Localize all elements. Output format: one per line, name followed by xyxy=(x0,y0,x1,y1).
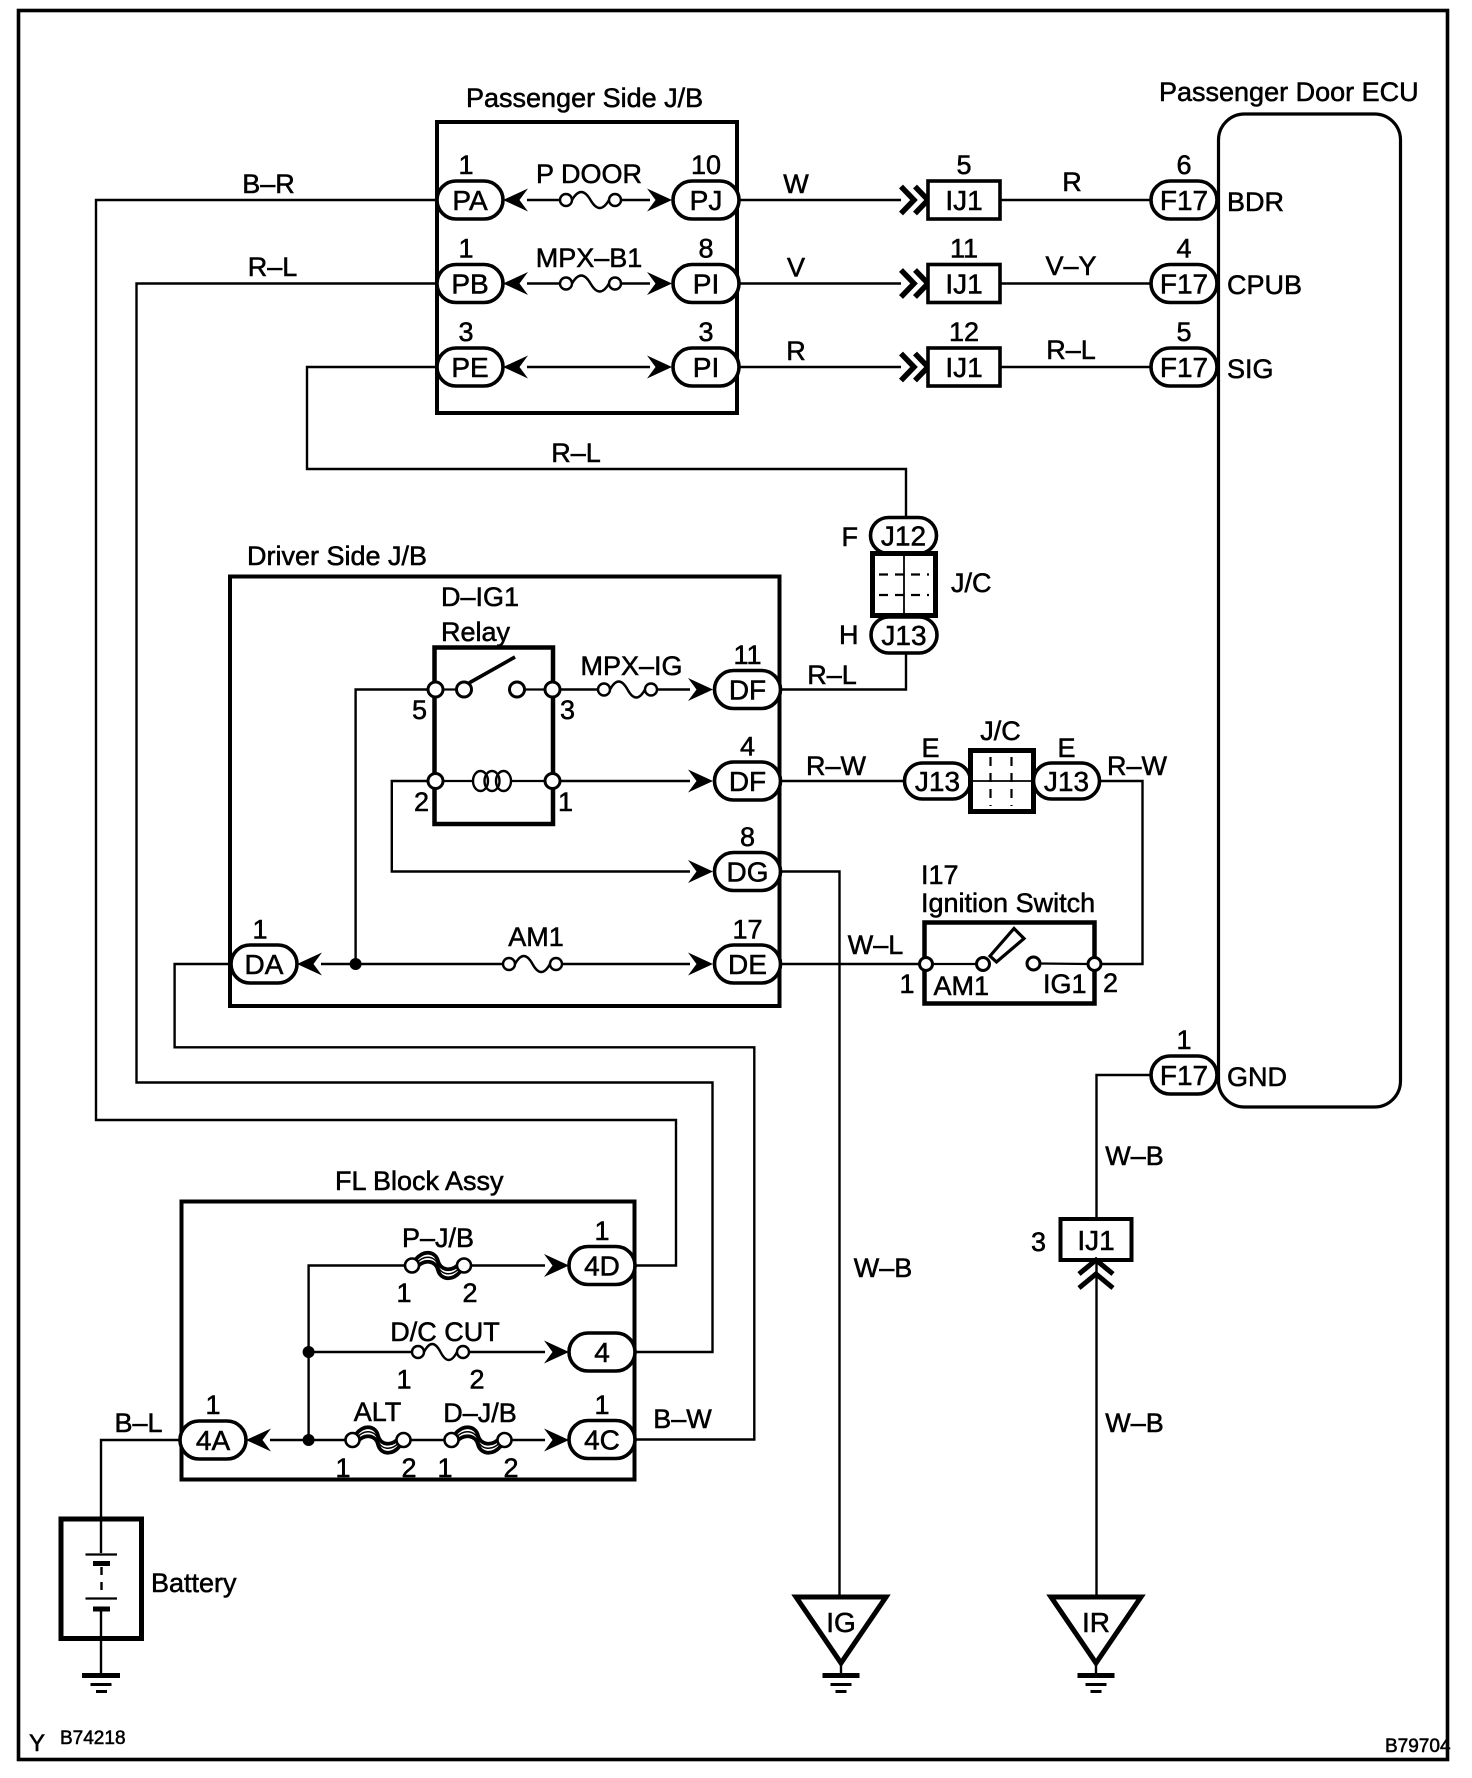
splice chevrons row 2 xyxy=(901,270,928,297)
FL Block Assy box xyxy=(182,1202,635,1480)
svg-text:DE: DE xyxy=(728,949,767,980)
svg-text:AM1: AM1 xyxy=(934,971,990,1001)
arrow into 4D xyxy=(544,1254,569,1277)
wire fuse MPX-B1 to arrow xyxy=(621,282,650,284)
svg-text:Ignition Switch: Ignition Switch xyxy=(921,888,1095,918)
svg-text:J13: J13 xyxy=(915,766,960,797)
svg-text:4C: 4C xyxy=(584,1425,620,1456)
svg-text:J13: J13 xyxy=(1044,766,1089,797)
svg-text:ALT: ALT xyxy=(354,1397,402,1427)
connector PJ xyxy=(673,181,739,219)
svg-text:1: 1 xyxy=(458,234,473,264)
fuse P DOOR xyxy=(560,192,621,208)
connector DF pin 4 xyxy=(715,762,781,800)
connector DF pin 11 xyxy=(715,671,781,709)
svg-text:W–L: W–L xyxy=(848,930,904,960)
arrow into 4A xyxy=(246,1429,271,1452)
fuse MPX-IG xyxy=(598,682,657,698)
svg-text:5: 5 xyxy=(412,695,427,725)
connector PI row2 xyxy=(673,265,739,303)
ignition switch I17 box xyxy=(925,923,1095,1004)
svg-text:1: 1 xyxy=(205,1390,220,1420)
splice chevrons row 1 xyxy=(901,187,928,214)
wire D-J/B to 4C xyxy=(512,1439,545,1441)
connector 4C pin 1 xyxy=(569,1421,635,1459)
svg-text:R–L: R–L xyxy=(1046,335,1096,365)
svg-text:H: H xyxy=(839,620,859,650)
wire 4A to ALT fuse xyxy=(270,1439,346,1441)
arrow into 4C xyxy=(544,1429,569,1452)
svg-text:Passenger Door ECU: Passenger Door ECU xyxy=(1159,77,1419,107)
svg-text:IJ1: IJ1 xyxy=(945,269,982,300)
ground splice IJ1 pin 3 xyxy=(1061,1219,1132,1260)
svg-text:2: 2 xyxy=(469,1365,484,1395)
svg-text:DA: DA xyxy=(245,949,284,980)
connector DE pin 17 xyxy=(715,945,781,983)
connector 4D pin 1 xyxy=(569,1247,635,1285)
wire R-W DF4 to J13 E left xyxy=(781,780,905,782)
wire DA to AM1 fuse to DE xyxy=(321,963,503,965)
arrow into 4 xyxy=(544,1341,569,1364)
svg-text:R–W: R–W xyxy=(1107,751,1168,781)
svg-text:1: 1 xyxy=(1176,1025,1191,1055)
wire B-L from 4A to battery xyxy=(101,1440,181,1519)
svg-text:DF: DF xyxy=(729,675,766,706)
ground symbol under IR xyxy=(1078,1663,1115,1692)
svg-text:11: 11 xyxy=(950,234,978,264)
wire W from PJ to IJ1 xyxy=(739,199,901,201)
svg-text:J13: J13 xyxy=(881,620,926,651)
svg-text:F17: F17 xyxy=(1160,269,1208,300)
ground point IR xyxy=(1051,1597,1141,1663)
svg-text:I17: I17 xyxy=(921,860,959,890)
connector F17 pin 1 GND xyxy=(1151,1056,1217,1094)
svg-text:B79704: B79704 xyxy=(1385,1736,1451,1757)
arrow into DE pin17 xyxy=(688,953,713,976)
svg-text:AM1: AM1 xyxy=(508,922,564,952)
connector J13 E right xyxy=(1034,763,1100,799)
wire ALT to D-J/B xyxy=(410,1439,446,1441)
svg-text:IG1: IG1 xyxy=(1043,969,1087,999)
wire V from PI to IJ1 xyxy=(739,282,901,284)
svg-text:3: 3 xyxy=(458,317,473,347)
svg-text:11: 11 xyxy=(733,640,761,670)
svg-text:J/C: J/C xyxy=(951,568,992,598)
svg-text:1: 1 xyxy=(899,969,914,999)
arrow into DG pin8 xyxy=(688,860,713,883)
svg-text:B–W: B–W xyxy=(653,1404,712,1434)
svg-text:MPX–IG: MPX–IG xyxy=(580,651,682,681)
svg-text:BDR: BDR xyxy=(1227,187,1284,217)
svg-text:4: 4 xyxy=(594,1337,610,1368)
svg-text:P–J/B: P–J/B xyxy=(402,1223,474,1253)
wire PE row inside J/B xyxy=(527,366,650,368)
connector DG pin 8 xyxy=(715,853,781,891)
connector DA pin 1 xyxy=(231,945,297,983)
svg-text:B–R: B–R xyxy=(242,169,295,199)
connector PA xyxy=(437,181,503,219)
arrow into DF pin11 xyxy=(688,678,713,701)
wire R-L from PB to left riser xyxy=(137,284,713,1353)
wire R from PI to IJ1 xyxy=(739,366,901,368)
svg-text:R: R xyxy=(786,336,806,366)
junction connector J/C vertical xyxy=(873,554,936,616)
svg-text:IG: IG xyxy=(826,1607,856,1638)
arrow into PI row2 xyxy=(647,272,672,295)
junction dot at relay pin5 riser and AM1 wire xyxy=(350,958,362,970)
svg-text:R–L: R–L xyxy=(248,252,298,282)
svg-text:R–L: R–L xyxy=(551,438,601,468)
svg-text:1: 1 xyxy=(458,150,473,180)
arrow into DA xyxy=(297,953,322,976)
wire DA to left riser down to 4C run xyxy=(175,964,755,1440)
svg-text:W–B: W–B xyxy=(1105,1141,1164,1171)
svg-text:3: 3 xyxy=(698,317,713,347)
wire DG to IG ground riser xyxy=(781,872,840,1598)
svg-text:IJ1: IJ1 xyxy=(1077,1225,1114,1256)
svg-text:F: F xyxy=(842,522,859,552)
wire fuse MPX-IG to DF11 xyxy=(657,688,690,690)
svg-text:1: 1 xyxy=(558,787,573,817)
svg-text:FL Block Assy: FL Block Assy xyxy=(335,1166,504,1196)
splice chevrons row 3 xyxy=(901,354,928,381)
wire fuse P DOOR to arrow xyxy=(621,199,650,201)
svg-text:CPUB: CPUB xyxy=(1227,270,1302,300)
svg-text:1: 1 xyxy=(252,915,267,945)
wire from PE via R-L run to J12 xyxy=(307,367,906,518)
svg-text:12: 12 xyxy=(949,317,979,347)
svg-text:GND: GND xyxy=(1227,1062,1287,1092)
svg-text:4: 4 xyxy=(1176,234,1191,264)
ground point IG xyxy=(796,1597,886,1663)
svg-text:Passenger Side J/B: Passenger Side J/B xyxy=(466,83,703,113)
wire fuse D-C CUT to 4 xyxy=(469,1351,545,1353)
svg-text:1: 1 xyxy=(437,1453,452,1483)
arrow into DF pin4 xyxy=(688,770,713,793)
wire R from IJ1 to F17 xyxy=(1000,199,1151,201)
svg-text:10: 10 xyxy=(691,150,721,180)
svg-text:2: 2 xyxy=(462,1278,477,1308)
arrow into PJ xyxy=(647,189,672,212)
svg-text:PJ: PJ xyxy=(690,185,723,216)
fuse MPX-B1 xyxy=(560,276,621,292)
svg-text:IJ1: IJ1 xyxy=(945,352,982,383)
svg-text:2: 2 xyxy=(414,787,429,817)
wire junction to fuse D-C CUT xyxy=(309,1351,412,1353)
svg-text:6: 6 xyxy=(1176,150,1191,180)
wire R-L from J13 down to DF11 xyxy=(781,653,906,690)
wire W-L from DE to ignition pin 1 xyxy=(781,963,920,965)
svg-text:Relay: Relay xyxy=(441,617,511,647)
svg-text:R: R xyxy=(1062,167,1082,197)
connector F17 pin 4 CPUB xyxy=(1151,265,1217,303)
svg-text:IJ1: IJ1 xyxy=(945,185,982,216)
wire J13 E right to ignition pin 2 xyxy=(1099,781,1143,964)
wire W-B from GND F17 to IJ1 xyxy=(1097,1075,1152,1219)
svg-text:5: 5 xyxy=(1176,317,1191,347)
svg-text:R–W: R–W xyxy=(806,751,867,781)
ground symbol under battery xyxy=(82,1676,120,1692)
chevrons under IJ1 splice xyxy=(1079,1260,1113,1288)
svg-text:F17: F17 xyxy=(1160,1060,1208,1091)
svg-text:W–B: W–B xyxy=(854,1253,913,1283)
battery cells xyxy=(86,1519,118,1638)
svg-text:4A: 4A xyxy=(196,1425,231,1456)
arrow into PB xyxy=(503,272,528,295)
arrow into PE xyxy=(503,356,528,379)
svg-text:2: 2 xyxy=(503,1453,518,1483)
wire FL internal riser xyxy=(309,1266,406,1441)
svg-text:1: 1 xyxy=(396,1278,411,1308)
svg-text:Driver Side J/B: Driver Side J/B xyxy=(247,541,427,571)
wire AM1 fuse to DE arrow xyxy=(562,963,690,965)
svg-text:V–Y: V–Y xyxy=(1045,251,1096,281)
svg-text:E: E xyxy=(921,733,939,763)
connector F17 pin 5 SIG xyxy=(1151,348,1217,386)
relay switch contact xyxy=(428,657,560,697)
Passenger Door ECU outline xyxy=(1219,114,1401,1107)
relay D-IG1 box xyxy=(435,648,554,825)
svg-text:DG: DG xyxy=(727,857,769,888)
wire battery to ground xyxy=(100,1638,102,1675)
wire R-L from IJ1 to F17 xyxy=(1000,366,1151,368)
svg-text:SIG: SIG xyxy=(1227,354,1274,384)
svg-text:B–L: B–L xyxy=(114,1408,162,1438)
svg-text:17: 17 xyxy=(732,915,762,945)
connector PI row3 xyxy=(673,348,739,386)
relay coil xyxy=(443,771,545,791)
svg-text:F17: F17 xyxy=(1160,352,1208,383)
svg-text:J12: J12 xyxy=(881,521,926,552)
connector J13 E left xyxy=(905,763,971,799)
svg-text:3: 3 xyxy=(1031,1227,1046,1257)
arrow into PI row3 xyxy=(647,356,672,379)
svg-text:Y: Y xyxy=(29,1730,45,1757)
splice IJ1 pin 5 xyxy=(928,181,1000,219)
svg-text:V: V xyxy=(787,253,805,283)
svg-text:2: 2 xyxy=(401,1453,416,1483)
svg-text:1: 1 xyxy=(396,1365,411,1395)
svg-text:DF: DF xyxy=(729,766,766,797)
ground symbol under IG xyxy=(823,1663,860,1692)
splice IJ1 pin 11 xyxy=(928,265,1000,303)
svg-text:F17: F17 xyxy=(1160,185,1208,216)
relay coil pins xyxy=(428,774,560,789)
svg-text:J/C: J/C xyxy=(980,716,1021,746)
svg-text:R–L: R–L xyxy=(807,660,857,690)
svg-text:D/C CUT: D/C CUT xyxy=(390,1317,500,1347)
svg-text:W: W xyxy=(783,169,809,199)
svg-text:2: 2 xyxy=(1103,968,1118,998)
wire relay pin3 to fuse MPX-IG xyxy=(560,688,598,690)
svg-text:8: 8 xyxy=(740,822,755,852)
fusible link ALT xyxy=(357,1427,400,1452)
svg-text:MPX–B1: MPX–B1 xyxy=(536,243,643,273)
wire PA row inside J/B xyxy=(527,199,560,201)
wire fuse P-J/B to 4D xyxy=(471,1264,545,1266)
fuse AM1 xyxy=(503,956,562,972)
wire V-Y from IJ1 to F17 xyxy=(1000,282,1151,284)
svg-text:B74218: B74218 xyxy=(60,1728,126,1749)
svg-text:PI: PI xyxy=(693,269,719,300)
fusible link D-J/B xyxy=(456,1427,501,1452)
connector J13 below J/C xyxy=(871,617,937,653)
svg-text:1: 1 xyxy=(335,1453,350,1483)
connector PB xyxy=(437,265,503,303)
svg-text:Battery: Battery xyxy=(151,1568,237,1598)
fusible link P-J/B xyxy=(416,1253,460,1278)
svg-text:P DOOR: P DOOR xyxy=(536,159,642,189)
connector J12 xyxy=(871,518,937,554)
connector PE xyxy=(437,348,503,386)
wire relay pin1 to DF4 xyxy=(560,780,690,782)
svg-text:PI: PI xyxy=(693,352,719,383)
connector 4A pin 1 xyxy=(180,1421,246,1459)
svg-text:W–B: W–B xyxy=(1105,1408,1164,1438)
svg-text:PE: PE xyxy=(451,352,488,383)
svg-text:PB: PB xyxy=(451,269,488,300)
junction dot at ALT tap xyxy=(303,1434,315,1446)
wire B-R from PA to left riser xyxy=(96,200,676,1266)
svg-text:IR: IR xyxy=(1082,1607,1110,1638)
fuse D/C CUT xyxy=(412,1344,469,1360)
wire PB row inside J/B xyxy=(527,282,560,284)
svg-text:D–J/B: D–J/B xyxy=(443,1398,517,1428)
ignition switch contacts xyxy=(920,929,1102,971)
svg-text:8: 8 xyxy=(698,234,713,264)
svg-text:1: 1 xyxy=(594,1216,609,1246)
svg-text:3: 3 xyxy=(560,695,575,725)
connector F17 pin 6 BDR xyxy=(1151,181,1217,219)
Driver Side J/B box xyxy=(230,577,780,1007)
svg-text:PA: PA xyxy=(452,185,488,216)
arrow into PA xyxy=(503,189,528,212)
svg-text:5: 5 xyxy=(956,150,971,180)
junction dot at D/C CUT tap xyxy=(303,1346,315,1358)
svg-text:1: 1 xyxy=(594,1390,609,1420)
battery box xyxy=(61,1519,142,1639)
splice IJ1 pin 12 xyxy=(928,348,1000,386)
svg-text:4: 4 xyxy=(740,732,755,762)
svg-text:D–IG1: D–IG1 xyxy=(441,582,519,612)
wire W-B from IJ1 to IR ground xyxy=(1095,1260,1097,1597)
wire relay pin5 to AM1 junction xyxy=(356,690,428,965)
connector 4 xyxy=(569,1333,635,1371)
junction connector J/C horizontal xyxy=(971,751,1034,812)
wire relay pin2 to DG xyxy=(392,781,690,872)
svg-text:4D: 4D xyxy=(584,1251,620,1282)
Passenger Side J/B box xyxy=(437,122,737,413)
svg-text:E: E xyxy=(1057,733,1075,763)
